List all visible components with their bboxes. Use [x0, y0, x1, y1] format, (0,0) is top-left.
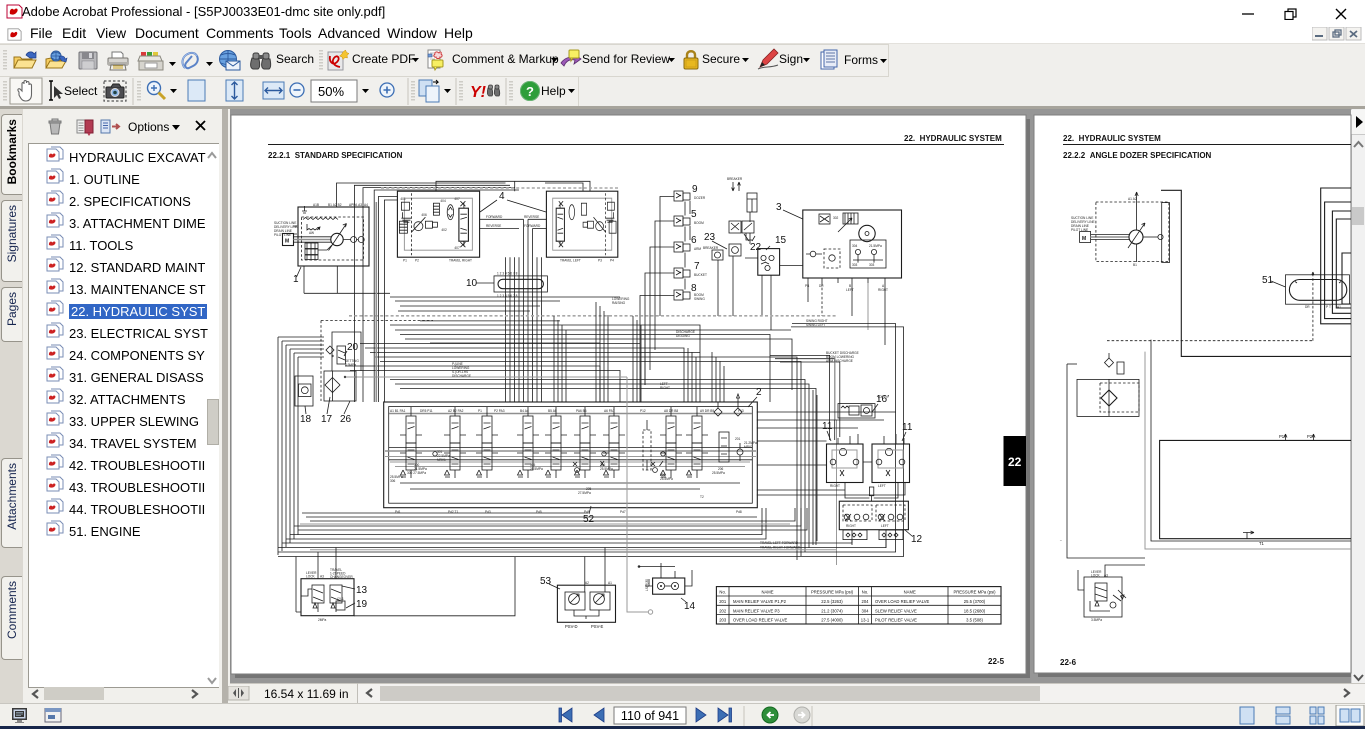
svg-text:A2: A2	[585, 581, 589, 585]
wire pilot feed (page 2 lower)	[1105, 565, 1145, 577]
drain orifice (2)-1	[336, 601, 345, 610]
svg-text:APPA A3: APPA A3	[349, 203, 362, 207]
paperclip	[182, 53, 197, 68]
svg-text:LOCK: LOCK	[306, 575, 316, 579]
dashed drain rail	[321, 320, 433, 322]
svg-text:_: _	[1059, 537, 1062, 541]
svg-text:Y!: Y!	[470, 84, 487, 101]
filter F1 diamond	[1101, 390, 1117, 406]
sidebar horizontal scrollbar	[30, 688, 42, 700]
svg-text:303: 303	[852, 263, 858, 267]
svg-text:22.5 (3263): 22.5 (3263)	[821, 599, 843, 604]
svg-text:T1: T1	[1259, 541, 1265, 546]
svg-text:300 27.5MPa: 300 27.5MPa	[407, 471, 426, 475]
relief notes mid	[530, 463, 725, 495]
cylinder block right of pump	[1162, 203, 1170, 263]
svg-text:AW: AW	[309, 231, 314, 235]
svg-text:MAIN RELIEF VALVE P1,P2: MAIN RELIEF VALVE P1,P2	[733, 599, 787, 604]
port strip right	[879, 530, 903, 540]
svg-text:TRAVEL LEFT FORWARD: TRAVEL LEFT FORWARD	[760, 541, 799, 545]
accumulator 22 pair	[729, 221, 741, 233]
svg-text:306: 306	[390, 479, 396, 483]
svg-text:Pd7: Pd7	[620, 510, 626, 514]
create pdf	[328, 50, 349, 70]
pilot valve 9 (dozer)	[674, 191, 690, 201]
svg-text:10: 10	[466, 278, 478, 289]
svg-text:204: 204	[862, 599, 870, 604]
svg-text:DR: DR	[1305, 305, 1310, 309]
svg-text:PILOT RELIEF VALVE: PILOT RELIEF VALVE	[875, 618, 917, 623]
svg-text:P1′: P1′	[1279, 434, 1285, 439]
port P2' arrow	[1312, 434, 1315, 440]
dashed riser left	[320, 321, 322, 402]
svg-text:22. HYDRAULIC SYSTEM: 22. HYDRAULIC SYSTEM	[904, 134, 1002, 143]
email globe	[220, 51, 241, 71]
lever lock valve (page 2)	[1084, 577, 1122, 617]
select tool	[49, 81, 63, 100]
print	[108, 52, 128, 70]
page layout	[419, 80, 439, 102]
svg-text:B4 A4: B4 A4	[520, 409, 529, 413]
swing anti-cavitation dashed	[824, 249, 840, 268]
nested return box 2	[1325, 202, 1351, 319]
pilot spring symbol	[307, 224, 320, 230]
svg-text:Create PDF: Create PDF	[352, 52, 415, 66]
wire regulator to pump	[318, 245, 332, 250]
svg-text:27.5MPa: 27.5MPa	[578, 491, 591, 495]
svg-text:23: 23	[704, 232, 716, 243]
svg-text:?: ?	[526, 84, 534, 99]
left return bundle nested	[278, 337, 324, 357]
svg-text:Send for Review: Send for Review	[582, 52, 670, 66]
svg-text:B1 A2 B2: B1 A2 B2	[328, 203, 342, 207]
send for review	[561, 50, 581, 66]
wire REVERSE (left box)	[528, 218, 546, 220]
svg-text:Select: Select	[64, 84, 98, 98]
spool section PA1 (boom swing)	[400, 407, 422, 478]
wire L-line pump to lower manifold	[1161, 190, 1351, 356]
svg-text:1 2 3 4 5 6 7 8: 1 2 3 4 5 6 7 8	[497, 272, 518, 276]
wire supply drop (page 2)	[1151, 340, 1351, 541]
svg-text:DISCHARGE: DISCHARGE	[452, 374, 471, 378]
svg-text:2MPa: 2MPa	[318, 618, 327, 622]
travel motor 11 (right)	[872, 444, 910, 483]
junction dots	[344, 376, 346, 378]
svg-text:MAIN RELIEF VALVE P3: MAIN RELIEF VALVE P3	[733, 608, 780, 613]
spring wavy compensator	[303, 218, 338, 220]
svg-text:MRV2: MRV2	[744, 445, 753, 449]
end section P13	[719, 432, 729, 462]
regulator valve stack	[305, 243, 318, 249]
expand icon	[101, 120, 119, 133]
svg-text:M: M	[285, 239, 289, 245]
pump unit 1 frame	[298, 207, 369, 266]
svg-text:A2 B2 PA2: A2 B2 PA2	[448, 409, 464, 413]
tank 51 frame	[1286, 275, 1350, 304]
bottom return staircase	[302, 508, 795, 521]
svg-text:P1: P1	[478, 409, 482, 413]
svg-text:B1: B1	[1133, 263, 1137, 267]
svg-text:4: 4	[499, 191, 505, 202]
header rule page 2	[1063, 144, 1351, 146]
bottom port row	[395, 495, 742, 514]
svg-text:FORWARD: FORWARD	[524, 224, 541, 228]
swing relief manifold	[850, 240, 886, 268]
svg-text:BREAKER: BREAKER	[703, 246, 719, 250]
svg-text:A6 PA7: A6 PA7	[604, 409, 615, 413]
page navigation	[548, 706, 828, 726]
open	[14, 52, 36, 68]
proportional valve PSV-D	[565, 592, 585, 610]
wire feeds into lever lock	[296, 548, 336, 613]
svg-text:M: M	[1082, 236, 1086, 242]
pump P1/P2 main circle	[331, 233, 343, 245]
swing line pair L-wires	[791, 324, 904, 535]
breaker shutoff valve	[712, 250, 723, 260]
motor M (engine)	[283, 234, 294, 246]
fit height	[226, 80, 243, 101]
wire dash-dot pilot return (page 2)	[1107, 340, 1313, 342]
svg-text:DR5 P11: DR5 P11	[420, 409, 433, 413]
port label row	[390, 409, 744, 413]
svg-text:Sign: Sign	[779, 52, 803, 66]
breather symbol	[302, 206, 307, 213]
svg-text:A9 DR B9: A9 DR B9	[700, 409, 714, 413]
wires valve block to travel motors	[757, 412, 896, 465]
svg-text:20: 20	[347, 342, 359, 353]
svg-text:No.: No.	[862, 590, 869, 595]
header rule page 1	[268, 144, 1004, 146]
wires swing drops	[821, 283, 823, 316]
svg-text:407: 407	[454, 246, 460, 250]
svg-text:11: 11	[902, 422, 913, 433]
spool section PA5 (boom)	[545, 407, 567, 478]
gray dashed pilot return rail	[349, 315, 836, 317]
drive shaft wire	[294, 239, 332, 241]
svg-text:RAISING: RAISING	[612, 301, 626, 305]
solenoid valve 19	[330, 585, 342, 603]
anti-drift valve cluster	[573, 462, 655, 466]
relief 301 note	[437, 450, 450, 462]
svg-text:406: 406	[421, 213, 427, 217]
svg-text:REVERSE: REVERSE	[524, 215, 539, 219]
svg-text:BREAKER: BREAKER	[727, 177, 743, 181]
fit width	[263, 82, 284, 99]
svg-text:50%: 50%	[318, 84, 344, 99]
svg-text:P1: P1	[403, 259, 407, 263]
svg-text:404: 404	[440, 199, 446, 203]
pilot supply top bus	[436, 181, 590, 191]
svg-text:P2′: P2′	[1307, 434, 1313, 439]
wires into 14	[639, 563, 692, 586]
svg-text:15: 15	[775, 235, 787, 246]
wire FORWARD (right box)	[480, 218, 524, 220]
pump top port labels	[313, 203, 368, 207]
check valve diamond 20a	[326, 346, 334, 354]
svg-text:304: 304	[852, 244, 858, 248]
wire pump suction port line	[1135, 192, 1138, 230]
nested return box 1	[1321, 188, 1351, 324]
svg-text:BOOM: BOOM	[694, 221, 704, 225]
svg-text:BUCKET: BUCKET	[694, 273, 707, 277]
svg-text:T2: T2	[700, 495, 704, 499]
svg-text:19: 19	[356, 599, 368, 610]
secure lock	[684, 51, 698, 69]
tank 51 capsule	[1289, 280, 1346, 301]
wires pilot valve chain	[685, 201, 690, 290]
svg-text:SLEW RELIEF VALVE: SLEW RELIEF VALVE	[875, 608, 917, 613]
swing port stubs	[808, 278, 885, 283]
sidebar vertical scrollbar chevrons	[206, 150, 218, 162]
svg-text:LOCK: LOCK	[1091, 574, 1101, 578]
binoculars	[251, 53, 271, 69]
svg-text:Help: Help	[541, 84, 566, 98]
help	[521, 82, 540, 101]
lever lock unit 13/19	[301, 579, 354, 616]
chapter thumb tab 22	[1004, 436, 1027, 486]
svg-text:Search: Search	[276, 52, 314, 66]
organizer	[138, 52, 163, 70]
comment & markup	[428, 50, 443, 70]
shuttle joint block	[869, 487, 873, 496]
filter housing 26	[324, 371, 356, 401]
wire dashed riser to tank 51	[1311, 272, 1314, 341]
svg-text:18.5 (2680): 18.5 (2680)	[964, 608, 986, 613]
swash plate arrow	[329, 224, 347, 251]
travel line tags	[760, 537, 1062, 550]
wire band extra horizontals	[398, 311, 600, 343]
svg-text:FORWARD: FORWARD	[486, 215, 503, 219]
trash icon	[49, 119, 61, 134]
svg-text:110 of 941: 110 of 941	[621, 709, 679, 723]
pump P1 (page 2 gear pump)	[1129, 230, 1143, 244]
svg-text:26: 26	[340, 414, 352, 425]
spool section PA2 (dozer)	[444, 407, 466, 478]
svg-text:PB: PB	[805, 284, 809, 288]
svg-text:Secure: Secure	[702, 52, 740, 66]
bucket/boom/arm L-wires	[770, 355, 840, 440]
svg-text:202: 202	[719, 608, 727, 613]
sign pen	[758, 49, 778, 69]
spool section PA4 (bucket)	[517, 407, 539, 478]
port strip left	[843, 530, 867, 540]
snapshot camera	[104, 81, 126, 101]
svg-text:LEFT: LEFT	[881, 524, 889, 528]
proportional valve PSV-E	[590, 592, 610, 610]
check valve diamond small	[1105, 358, 1114, 367]
svg-text:RIGHT: RIGHT	[830, 484, 840, 488]
layout buttons bottom right	[1238, 705, 1365, 726]
svg-text:NAME: NAME	[904, 590, 916, 595]
svg-text:DIGGING: DIGGING	[676, 334, 690, 338]
solenoid manifold 53	[557, 585, 615, 622]
spool section PA3 (travel right)	[476, 407, 498, 478]
svg-text:TRAVEL LEFT: TRAVEL LEFT	[560, 259, 581, 263]
open web	[46, 51, 67, 68]
svg-text:7: 7	[694, 261, 700, 272]
wire pump delivery down	[1136, 244, 1138, 262]
pilot valve 7 (bucket)	[674, 268, 690, 278]
gauge port circle	[1158, 234, 1163, 239]
port P1' arrow	[1284, 434, 1287, 440]
svg-text:SWING: SWING	[694, 297, 705, 301]
load check diamond	[714, 402, 722, 416]
svg-text:12: 12	[911, 534, 923, 545]
svg-text:25.5 (3700): 25.5 (3700)	[964, 599, 986, 604]
fit page	[188, 80, 205, 101]
wire pump interconnect	[343, 239, 358, 241]
minus circle	[290, 83, 304, 97]
svg-text:21.2 (3074): 21.2 (3074)	[821, 608, 843, 613]
svg-text:11: 11	[822, 421, 833, 432]
svg-text:22-6: 22-6	[1060, 658, 1077, 667]
doc window buttons	[1312, 27, 1362, 41]
relief valve 20'	[1117, 362, 1124, 374]
svg-text:A3: A3	[320, 575, 324, 579]
travel pilot valve 4 (left) frame	[546, 191, 617, 257]
svg-text:21.5MPa: 21.5MPa	[869, 244, 882, 248]
svg-text:401: 401	[400, 197, 406, 201]
svg-text:4.9MPa: 4.9MPa	[345, 363, 356, 367]
svg-text:TRAVEL RIGHT FORWARD: TRAVEL RIGHT FORWARD	[760, 546, 801, 550]
page 22-6 sheet	[1034, 115, 1351, 673]
wire band verticals	[554, 316, 566, 402]
svg-text:201: 201	[735, 437, 741, 441]
svg-text:P2 PA3: P2 PA3	[494, 409, 505, 413]
check valve dots	[602, 452, 606, 456]
svg-text:304: 304	[862, 608, 870, 613]
svg-text:3: 3	[776, 202, 782, 213]
svg-text:P12: P12	[640, 409, 646, 413]
svg-text:302: 302	[833, 216, 839, 220]
wire pump outlet to gauge	[1143, 236, 1158, 238]
svg-text:A1B: A1B	[313, 203, 319, 207]
panel header icons	[44, 117, 214, 137]
nested return box 3	[1332, 211, 1351, 313]
travel motor 11 (left)	[827, 444, 864, 483]
svg-text:LEFT: LEFT	[846, 288, 854, 292]
svg-text:B5 A5: B5 A5	[548, 409, 557, 413]
center pilot line bundle	[506, 219, 542, 402]
valve 16' (OPT)	[838, 404, 875, 418]
svg-text:203: 203	[719, 618, 727, 623]
svg-text:P T: P T	[1326, 305, 1331, 309]
travel right port labels	[403, 259, 472, 263]
svg-text:22: 22	[1008, 455, 1022, 469]
svg-text:PSV-D: PSV-D	[565, 624, 578, 629]
relief 20	[337, 346, 346, 364]
pressure table frame	[716, 587, 1001, 624]
svg-text:3.5MPa: 3.5MPa	[1091, 618, 1102, 622]
breaker selector valve	[729, 244, 741, 256]
svg-text:27.5 (4000): 27.5 (4000)	[821, 618, 843, 623]
hand tool (active)	[10, 78, 42, 104]
svg-text:2: 2	[756, 387, 762, 398]
svg-text:6: 6	[691, 235, 697, 246]
wire return drop left (page 2)	[1067, 364, 1145, 558]
motor M (page 2 pump drive)	[1080, 232, 1091, 243]
svg-text:Comment & Markup: Comment & Markup	[452, 52, 559, 66]
svg-text:Pd8: Pd8	[736, 510, 742, 514]
filter 17 diamond	[325, 378, 340, 393]
svg-text:22.2.2 ANGLE DOZER SPECIFICAT: 22.2.2 ANGLE DOZER SPECIFICATION	[1063, 151, 1212, 160]
gray pilot drop to 53	[627, 377, 648, 612]
svg-text:51: 51	[1262, 275, 1274, 286]
wire pump case drain	[304, 266, 390, 293]
relief 306 note	[390, 475, 403, 483]
gray supply rail	[345, 376, 627, 378]
strainer 18 box	[295, 376, 313, 406]
wire band horizontals	[390, 297, 620, 306]
svg-text:303: 303	[869, 263, 875, 267]
svg-text:RIGHT: RIGHT	[878, 288, 888, 292]
port T1 arrow	[1243, 531, 1254, 539]
nested return box 4	[1336, 219, 1351, 308]
svg-text:13: 13	[356, 585, 368, 596]
svg-text:LEFT: LEFT	[878, 484, 886, 488]
travel right internals	[404, 198, 472, 250]
pilot valve 5 (boom)	[674, 216, 690, 226]
save	[79, 52, 97, 69]
svg-text:REVERSE: REVERSE	[486, 224, 501, 228]
bypass section P12	[643, 430, 651, 470]
line-type legend (page 2)	[1071, 216, 1095, 232]
travel left internals (mirrored)	[553, 198, 612, 250]
svg-text:22. HYDRAULIC SYSTEM: 22. HYDRAULIC SYSTEM	[1063, 134, 1161, 143]
svg-text:22.2.1 STANDARD SPECIFICATION: 22.2.1 STANDARD SPECIFICATION	[268, 151, 403, 160]
block rail lines	[389, 448, 753, 460]
zoom in tool	[148, 82, 166, 100]
junction node	[638, 565, 641, 568]
breaker flow arrows	[732, 182, 741, 191]
svg-text:PRESSURE MPa (psi): PRESSURE MPa (psi)	[811, 590, 854, 595]
dozer manifold rectangle	[1160, 440, 1351, 538]
svg-text:3.5 (508): 3.5 (508)	[966, 618, 983, 623]
solenoid valve 13	[312, 585, 324, 603]
shuttle manifold 10	[494, 276, 547, 292]
spool section PA7 (travel left)	[603, 407, 625, 478]
shuttle block 15	[758, 249, 780, 276]
valve block outer	[384, 402, 758, 508]
svg-text:CHANGEOVER: CHANGEOVER	[330, 575, 353, 579]
gray P bus top	[389, 413, 752, 415]
svg-text:25.5MPa: 25.5MPa	[600, 467, 613, 471]
pilot feed frame	[332, 332, 361, 371]
svg-text:No.: No.	[719, 590, 726, 595]
wire FORWARD (left box)	[533, 228, 547, 230]
svg-text:22: 22	[750, 242, 762, 253]
doc h-scrollbar	[358, 684, 1365, 703]
wire lever lock loop	[354, 557, 515, 616]
line-type legend (page 1)	[274, 221, 298, 237]
svg-text:25.5MPa: 25.5MPa	[660, 477, 673, 481]
zoom box	[311, 80, 357, 102]
swing unit 3 frame	[803, 210, 902, 278]
svg-text:OVER LOAD RELIEF VALVE: OVER LOAD RELIEF VALVE	[875, 599, 930, 604]
wire drive shaft M to pump	[1091, 236, 1129, 238]
svg-text:MRV1: MRV1	[437, 458, 446, 462]
relief 300 note	[407, 463, 427, 475]
swing diagonal arrow	[838, 218, 852, 232]
svg-text:(2)-1: (2)-1	[337, 597, 344, 601]
control envelope pump (dashed)	[1096, 202, 1169, 262]
forms button	[819, 49, 929, 73]
travel left port labels	[560, 259, 614, 263]
svg-text:A1 A2: A1 A2	[1128, 197, 1137, 201]
svg-text:RIGHT: RIGHT	[846, 524, 856, 528]
wire REVERSE (right box)	[480, 228, 519, 230]
svg-text:18: 18	[300, 414, 312, 425]
